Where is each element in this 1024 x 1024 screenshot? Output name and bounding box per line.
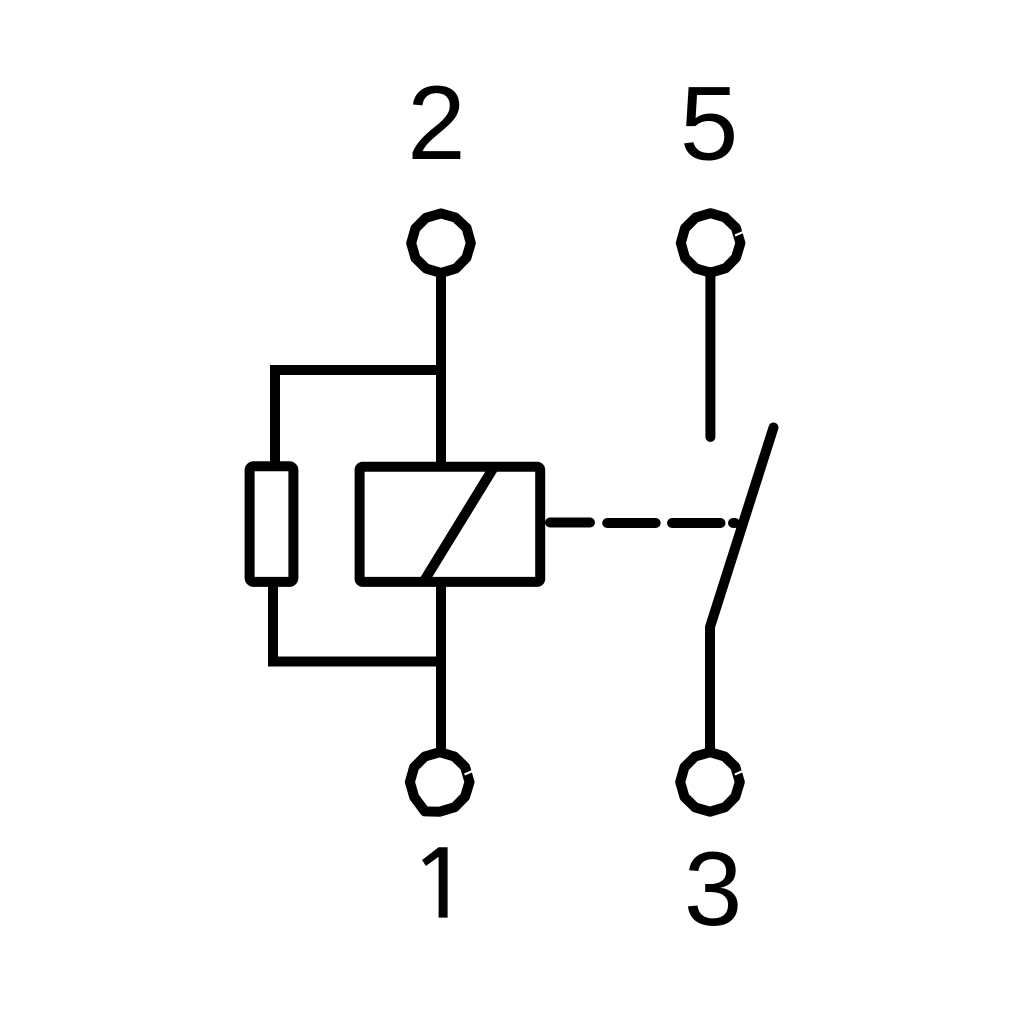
wire: top horizontal of resistor parallel branch	[275, 370, 441, 466]
terminal circle pin 2	[411, 213, 471, 273]
terminal circle pin 5	[681, 213, 741, 273]
resistor R	[250, 466, 294, 582]
coil diagonal stroke	[424, 467, 494, 581]
terminal circle pin 1	[410, 752, 470, 812]
svg-text:2: 2	[407, 65, 465, 182]
terminal circle pin 3	[680, 752, 740, 812]
wire: terminal 2 down to coil top	[436, 272, 446, 467]
relay coil K1	[360, 467, 541, 582]
wire: terminal 5 down to contact gap	[705, 272, 715, 437]
notch on terminal 1	[465, 770, 477, 775]
actuation link dash 2	[672, 518, 721, 528]
actuation link dash 1	[607, 518, 656, 528]
actuation link stub from coil	[550, 518, 590, 528]
switch contact blade and wire down to terminal 3	[710, 428, 774, 753]
pin label 1	[422, 847, 448, 917]
svg-text:3: 3	[684, 831, 742, 948]
notch on terminal 3	[735, 770, 747, 775]
wire: resistor bottom to bottom horizontal branch	[273, 582, 441, 662]
wire: coil bottom down to terminal 1	[436, 582, 446, 752]
notch on terminal 5	[735, 231, 747, 236]
svg-text:5: 5	[680, 66, 738, 183]
actuation link dash 3	[733, 518, 735, 528]
